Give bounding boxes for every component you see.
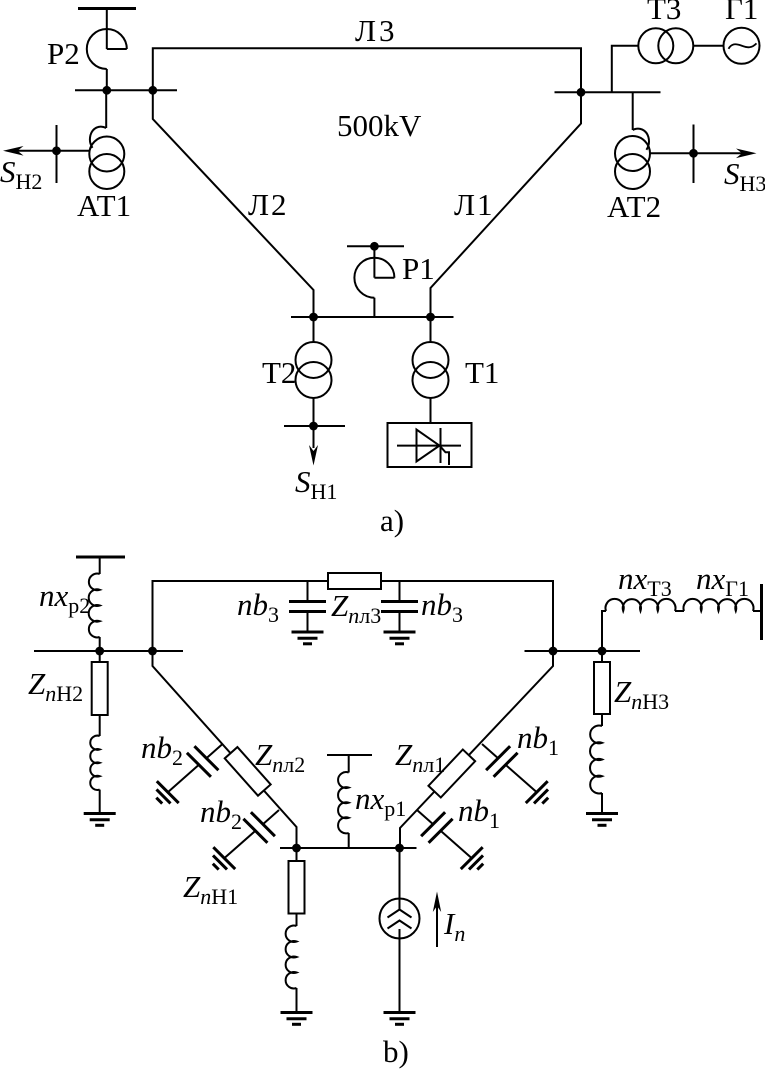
transformer T3 xyxy=(638,28,693,63)
wire to T3 xyxy=(612,46,639,93)
inductor nx_G1 xyxy=(675,599,761,611)
inductor nx_p2 xyxy=(89,557,100,651)
load impedance Z_nH2 xyxy=(90,651,107,814)
generator G1 xyxy=(724,28,760,64)
svg-text:Znл1: Znл1 xyxy=(395,737,445,777)
svg-text:nb2: nb2 xyxy=(200,794,242,834)
ground nb_2 upper (tilted) xyxy=(156,781,178,803)
svg-text:Znл3: Znл3 xyxy=(331,588,381,628)
reactor P1 xyxy=(354,246,394,317)
capacitor nb_3 right xyxy=(381,581,418,632)
ground Z_nH2 xyxy=(84,814,116,826)
svg-text:ZnН2: ZnН2 xyxy=(28,666,83,706)
wire AT2 feeder xyxy=(632,92,634,130)
bus node 3 eq xyxy=(525,650,641,652)
svg-text:Т1: Т1 xyxy=(465,355,499,390)
wire S_H3 feeder with tick xyxy=(650,125,745,184)
thyristor converter box xyxy=(388,423,472,467)
transformer T2 xyxy=(296,342,332,398)
svg-text:nb2: nb2 xyxy=(141,730,183,770)
reactor P1 terminal bar xyxy=(347,245,404,247)
junction dot xyxy=(598,647,607,656)
capacitor nb_1 upper xyxy=(482,744,537,792)
wire T1 to converter xyxy=(430,398,432,423)
svg-text:АТ1: АТ1 xyxy=(77,188,131,223)
reactor P2 xyxy=(87,9,127,91)
svg-text:500kV: 500kV xyxy=(337,108,422,143)
arrow S_H3 xyxy=(736,149,757,159)
svg-text:nb1: nb1 xyxy=(517,720,559,760)
svg-text:SН1: SН1 xyxy=(295,464,337,504)
junction dot xyxy=(549,647,558,656)
svg-text:a): a) xyxy=(380,503,404,538)
svg-text:Р2: Р2 xyxy=(47,36,80,71)
current source I_n xyxy=(380,848,420,1013)
terminal bar (system eq. left) xyxy=(76,556,125,559)
svg-text:Г1: Г1 xyxy=(725,0,758,26)
capacitor nb_2 lower xyxy=(224,810,279,858)
terminal bar (generator eq. right) xyxy=(760,584,763,640)
load impedance Z_nH1 xyxy=(286,848,305,1013)
svg-text:SН3: SН3 xyxy=(724,156,765,196)
wire T3 to G1 xyxy=(693,45,724,47)
reactor nx_p1 terminal bar xyxy=(327,754,372,756)
svg-text:nxГ1: nxГ1 xyxy=(696,561,749,601)
junction dot xyxy=(426,313,435,322)
wire line L2 xyxy=(153,90,314,317)
wire AT1 feeder xyxy=(105,90,107,128)
ground nb_1 lower (tilted) xyxy=(461,847,483,869)
svg-text:ZnН1: ZnН1 xyxy=(183,869,238,909)
junction dot xyxy=(148,86,157,95)
capacitor nb_3 left xyxy=(289,581,326,632)
junction dot xyxy=(52,146,61,155)
svg-text:АТ2: АТ2 xyxy=(607,189,661,224)
line impedance Z_nl1 xyxy=(428,749,475,797)
arrow S_H1 xyxy=(309,426,318,466)
wire T2 to S_H1 with tick xyxy=(284,398,345,426)
wire S_H2 feeder with tick xyxy=(14,125,90,183)
capacitor nb_1 lower xyxy=(417,810,472,858)
arrow I_n xyxy=(433,892,441,948)
wire line L3 xyxy=(153,48,581,92)
bus node 2 eq xyxy=(34,650,183,652)
ground Z_nH3 xyxy=(586,814,618,826)
inductor nx_p1 xyxy=(338,755,349,848)
wire bus to T1 xyxy=(430,317,432,342)
svg-text:Т2: Т2 xyxy=(262,355,296,390)
svg-text:Р1: Р1 xyxy=(402,251,435,286)
svg-text:Т3: Т3 xyxy=(647,0,681,26)
bus node bottom (500kV bus 1) xyxy=(291,316,454,318)
ground nb_2 lower (tilted) xyxy=(213,847,235,869)
ground I_n xyxy=(384,1013,416,1025)
svg-text:nb3: nb3 xyxy=(237,587,279,627)
inductor nx_T3 xyxy=(602,599,676,651)
transformer T1 xyxy=(413,342,449,398)
ground Z_nH1 xyxy=(281,1013,313,1025)
junction dot xyxy=(395,844,404,853)
bus node right (500kV bus 3) xyxy=(555,91,661,93)
line impedance Z_nl3 xyxy=(328,573,381,589)
arrow S_H2 xyxy=(3,146,24,156)
svg-text:nb1: nb1 xyxy=(458,793,500,833)
svg-text:Л2: Л2 xyxy=(248,187,289,222)
wire line L2 eq xyxy=(153,651,297,848)
junction dot xyxy=(292,844,301,853)
svg-text:Л1: Л1 xyxy=(454,187,495,222)
wire line L1 xyxy=(431,92,582,317)
svg-text:nxр1: nxр1 xyxy=(355,781,406,821)
junction dot on P1 bar xyxy=(370,242,379,251)
junction dot xyxy=(309,422,318,431)
ground nb_3 left xyxy=(292,632,324,644)
junction dot xyxy=(102,86,111,95)
junction dot xyxy=(148,647,157,656)
svg-text:In: In xyxy=(443,906,465,946)
junction dot xyxy=(689,149,698,158)
load impedance Z_nH3 xyxy=(590,651,610,814)
junction dot xyxy=(577,88,586,97)
svg-text:nxр2: nxр2 xyxy=(39,578,90,618)
svg-text:ZnН3: ZnН3 xyxy=(614,674,669,714)
bus node 1 eq xyxy=(280,847,417,849)
svg-text:Л3: Л3 xyxy=(355,13,398,48)
ground nb_1 upper (tilted) xyxy=(526,781,548,803)
line impedance Z_nl2 xyxy=(225,747,271,796)
reactor P2 terminal bar xyxy=(78,7,136,10)
bus node left (500kV bus 2) xyxy=(75,89,177,91)
autotransformer AT1 xyxy=(89,127,124,189)
svg-text:nxТ3: nxТ3 xyxy=(618,561,672,601)
svg-text:SН2: SН2 xyxy=(0,154,42,194)
wire line L1 eq xyxy=(400,651,553,848)
ground nb_3 right xyxy=(384,632,416,644)
svg-text:Znл2: Znл2 xyxy=(255,737,305,777)
svg-text:b): b) xyxy=(383,1034,409,1069)
junction dot xyxy=(95,647,104,656)
capacitor nb_2 upper xyxy=(168,744,223,792)
wire line L3 eq xyxy=(153,581,554,651)
junction dot xyxy=(309,313,318,322)
autotransformer AT2 xyxy=(615,129,650,189)
wire bus to T2 xyxy=(313,317,315,342)
svg-text:nb3: nb3 xyxy=(421,587,463,627)
